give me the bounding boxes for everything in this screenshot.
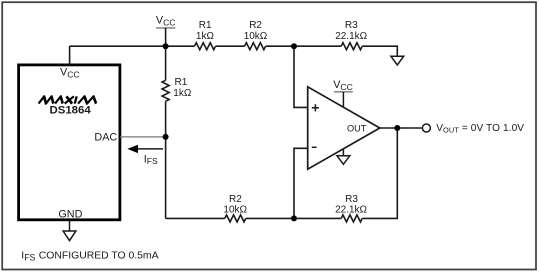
wire: node A to op-amp + input	[294, 46, 308, 107]
wire: IC DAC pin to DAC node	[120, 136, 166, 138]
svg-text:VCC: VCC	[60, 67, 80, 80]
wire: bottom rail to R2	[166, 217, 225, 219]
resistor R2 10kOhm (bottom rail)	[223, 194, 247, 222]
svg-text:R3: R3	[345, 20, 358, 31]
node: output junction	[394, 125, 400, 131]
svg-text:OUT: OUT	[347, 124, 367, 134]
svg-text:22.1kΩ: 22.1kΩ	[335, 204, 367, 215]
output terminal circle	[422, 124, 430, 132]
svg-text:DAC: DAC	[94, 132, 117, 144]
wire: R3 to top-right ground	[362, 46, 397, 56]
current arrow IFS	[127, 145, 163, 167]
svg-text:R1: R1	[199, 20, 212, 31]
wire: bottom rail, R2 to node B and on to R3	[246, 217, 341, 219]
svg-text:10kΩ: 10kΩ	[244, 31, 268, 42]
node A: R2/R3 junction (top)	[291, 43, 297, 49]
IC U1 DS1864	[19, 65, 120, 221]
svg-text:22.1kΩ: 22.1kΩ	[335, 31, 367, 42]
wire: top rail, VCC drop to R1	[70, 45, 195, 47]
svg-text:GND: GND	[58, 209, 82, 221]
node: DAC junction	[163, 134, 169, 140]
resistor R1 1kOhm (vertical)	[162, 77, 192, 101]
wire: vertical R1 to DAC node and down to bottom rail	[165, 101, 167, 218]
ground (top right)	[391, 56, 404, 65]
svg-text:1kΩ: 1kΩ	[196, 31, 215, 42]
svg-text:CONFIGURED TO 0.5mA: CONFIGURED TO 0.5mA	[39, 250, 159, 261]
resistor R1 1kOhm (top rail)	[195, 20, 216, 50]
MAXIM logo	[39, 96, 98, 103]
- input marker	[312, 146, 317, 148]
svg-text:VCC: VCC	[333, 79, 353, 92]
svg-text:IFS: IFS	[21, 250, 35, 262]
svg-text:1kΩ: 1kΩ	[173, 88, 192, 99]
node B: R2/R3 junction (bottom)	[291, 215, 297, 221]
resistor R3 22.1kOhm (bottom rail)	[335, 194, 367, 222]
svg-text:R2: R2	[249, 20, 262, 31]
wire: top rail, R2 to node A and on to R3	[266, 45, 342, 47]
svg-text:R1: R1	[175, 77, 188, 88]
ground (below IC GND pin)	[63, 220, 76, 241]
wire: top rail down to IC VCC pin	[69, 46, 71, 65]
resistor R2 10kOhm (top rail)	[244, 20, 268, 50]
node: VCC rail junction	[163, 43, 169, 49]
power rail VCC (top)	[156, 14, 176, 46]
caption: IFS configured to 0.5mA	[21, 250, 158, 262]
svg-text:10kΩ: 10kΩ	[223, 204, 247, 215]
resistor R3 22.1kOhm (top rail)	[335, 20, 367, 50]
svg-text:DS1864: DS1864	[50, 104, 92, 116]
op-amp U2	[308, 87, 380, 169]
ground (op-amp supply)	[337, 149, 350, 164]
wire: rail node down to vertical R1	[165, 46, 167, 80]
+ input marker	[312, 104, 319, 111]
power VCC (op-amp supply)	[333, 79, 353, 107]
svg-text:IFS: IFS	[144, 153, 158, 166]
wire: node B to op-amp - input	[294, 148, 308, 218]
wire: top rail, R1 to R2	[216, 45, 245, 47]
wire: bottom rail up to output node	[362, 128, 397, 218]
svg-text:VCC: VCC	[156, 14, 176, 27]
wire: op-amp output to terminal	[380, 127, 423, 129]
